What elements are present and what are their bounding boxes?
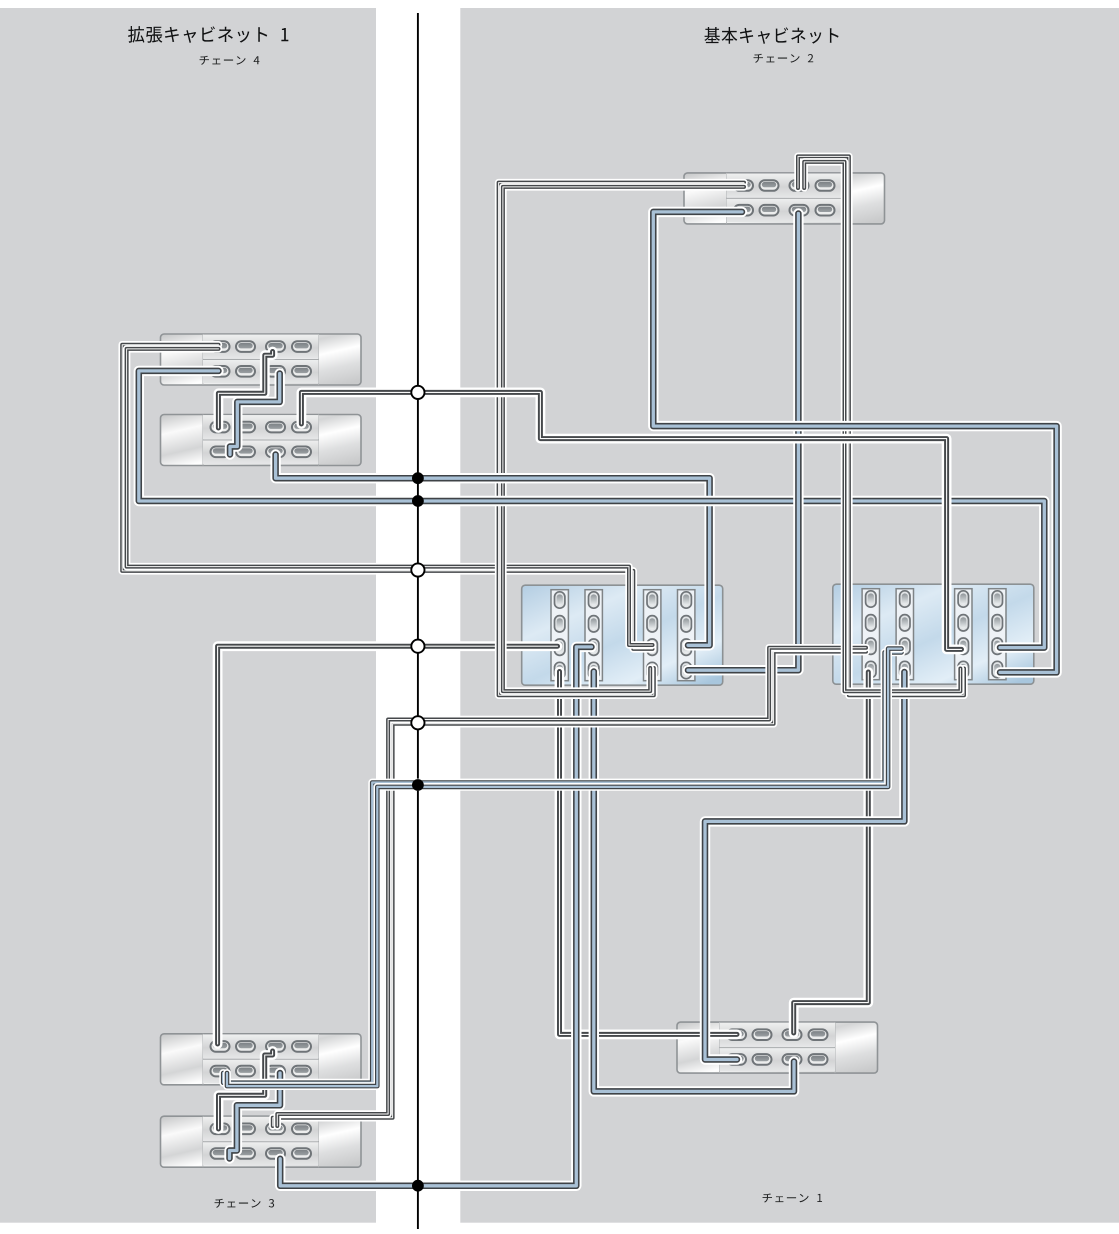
controller left (base cabinet)	[522, 585, 723, 685]
wire cable D1: expansion shelf2 IOM0 port4 to controller-R slot3 port3	[301, 392, 961, 649]
wire cable P5b: expansion shelf3 IOM1 port1 to controller-R slot2 port3	[227, 649, 902, 1087]
wire cable P5a: expansion shelf3 IOM1 port1 to controller-R slot2 port3	[223, 652, 901, 1082]
wire cable P3b: expansion shelf1 IOM0 port1 to controller-L slot3 port3	[127, 349, 653, 645]
wire cable P1a: base shelf-top IOM0 port1 to controller-L slot3 port4	[499, 183, 744, 696]
junction node (open) at boundary y=722.8	[411, 716, 424, 729]
junction node (solid) at boundary y=785.0	[412, 779, 424, 791]
junction node (open) at boundary y=646.2	[411, 640, 424, 653]
wire cable S6: controller-L slot2 port4 to base shelf-bottom IOM1 port3	[594, 672, 794, 1092]
junction node (solid) at boundary y=478.2	[412, 472, 424, 484]
disk shelf L1 (expansion, chain4 top)	[161, 334, 362, 385]
wire cable S1: base shelf-top IOM1 port1 to controller-R slot4 port4	[653, 212, 1056, 673]
cabinet panel: expansion cabinet (left)	[0, 8, 376, 1223]
disk shelf L4 (expansion, chain3 bottom)	[161, 1116, 362, 1167]
wire cable P1b: base shelf-top IOM0 port1 to controller-L slot3 port4	[503, 187, 744, 691]
label: chain 2	[754, 54, 814, 63]
disk shelf BR (base cabinet, chain1)	[677, 1022, 878, 1073]
wire cable S3: expansion shelf1 IOM1 port1 to controller-R slot4 port3	[139, 371, 1045, 648]
wire cable P4a: expansion shelf4 IOM0 port3 to controller-R slot1 port3	[273, 652, 866, 1126]
wire cable P4b: expansion shelf4 IOM0 port3 to controller-R slot1 port3	[277, 648, 866, 1126]
wire cable D6: expansion shelf3 IOM0 port3 to shelf4 IOM0 port1	[219, 1051, 273, 1129]
cabinet panel: base cabinet (right)	[460, 8, 1119, 1223]
wire cable S2: base shelf-top IOM1 port3 to controller-L slot4 port4	[688, 214, 798, 671]
wire cable D4: controller-R slot1 port4 to base shelf-bottom IOM0 port3	[794, 672, 869, 1033]
wire cable S7: controller-L slot2 port3 to expansion shelf4 IOM1 port3	[280, 647, 591, 1186]
wire cable S5: controller-R slot2 port4 to base shelf-bottom IOM1 port1	[705, 672, 904, 1060]
controller right (base cabinet)	[833, 584, 1034, 684]
wire cable S4: expansion shelf2 IOM1 port3 to controller-L slot4 port3	[276, 455, 710, 646]
junction node (open) at boundary y=392.4	[411, 386, 424, 399]
junction node (solid) at boundary y=1185.7	[412, 1180, 424, 1192]
wire cable S9: expansion shelf3 IOM1 port3 to shelf4 IOM1 port1	[230, 1073, 281, 1159]
disk shelf L3 (expansion, chain3 top)	[161, 1034, 362, 1085]
label: base cabinet title	[704, 27, 838, 44]
cabinet boundary line	[417, 13, 419, 1229]
disk shelf TR (base cabinet, chain2)	[684, 173, 885, 224]
label: expansion cabinet title	[128, 26, 288, 43]
junction node (open) at boundary y=570.0	[411, 563, 424, 576]
label: chain 4	[200, 56, 260, 65]
wire cable D2: expansion shelf3 IOM0 port1 to controller-L slot1 port3	[218, 646, 558, 1044]
label: chain 1	[763, 1193, 823, 1202]
junction node (solid) at boundary y=501.0	[412, 495, 424, 507]
wire cable S8: expansion shelf1 IOM1 port3 to shelf2 IOM1 port1	[230, 374, 280, 455]
wire cable D5: expansion shelf1 IOM0 port3 to shelf2 IOM0 port1	[218, 352, 272, 429]
disk shelf L2 (expansion, chain4 bottom)	[161, 415, 362, 466]
label: chain 3	[215, 1199, 275, 1208]
wire cable P2b: base shelf-top IOM0 port3 to controller-R slot3 port4	[804, 162, 960, 691]
wire cable D3: controller-L slot1 port4 to base shelf-bottom IOM0 port1	[560, 672, 738, 1035]
wire cable P3a: expansion shelf1 IOM0 port1 to controller-L slot3 port3	[122, 345, 652, 649]
wire cable P2a: base shelf-top IOM0 port3 to controller-R slot3 port4	[798, 156, 964, 695]
